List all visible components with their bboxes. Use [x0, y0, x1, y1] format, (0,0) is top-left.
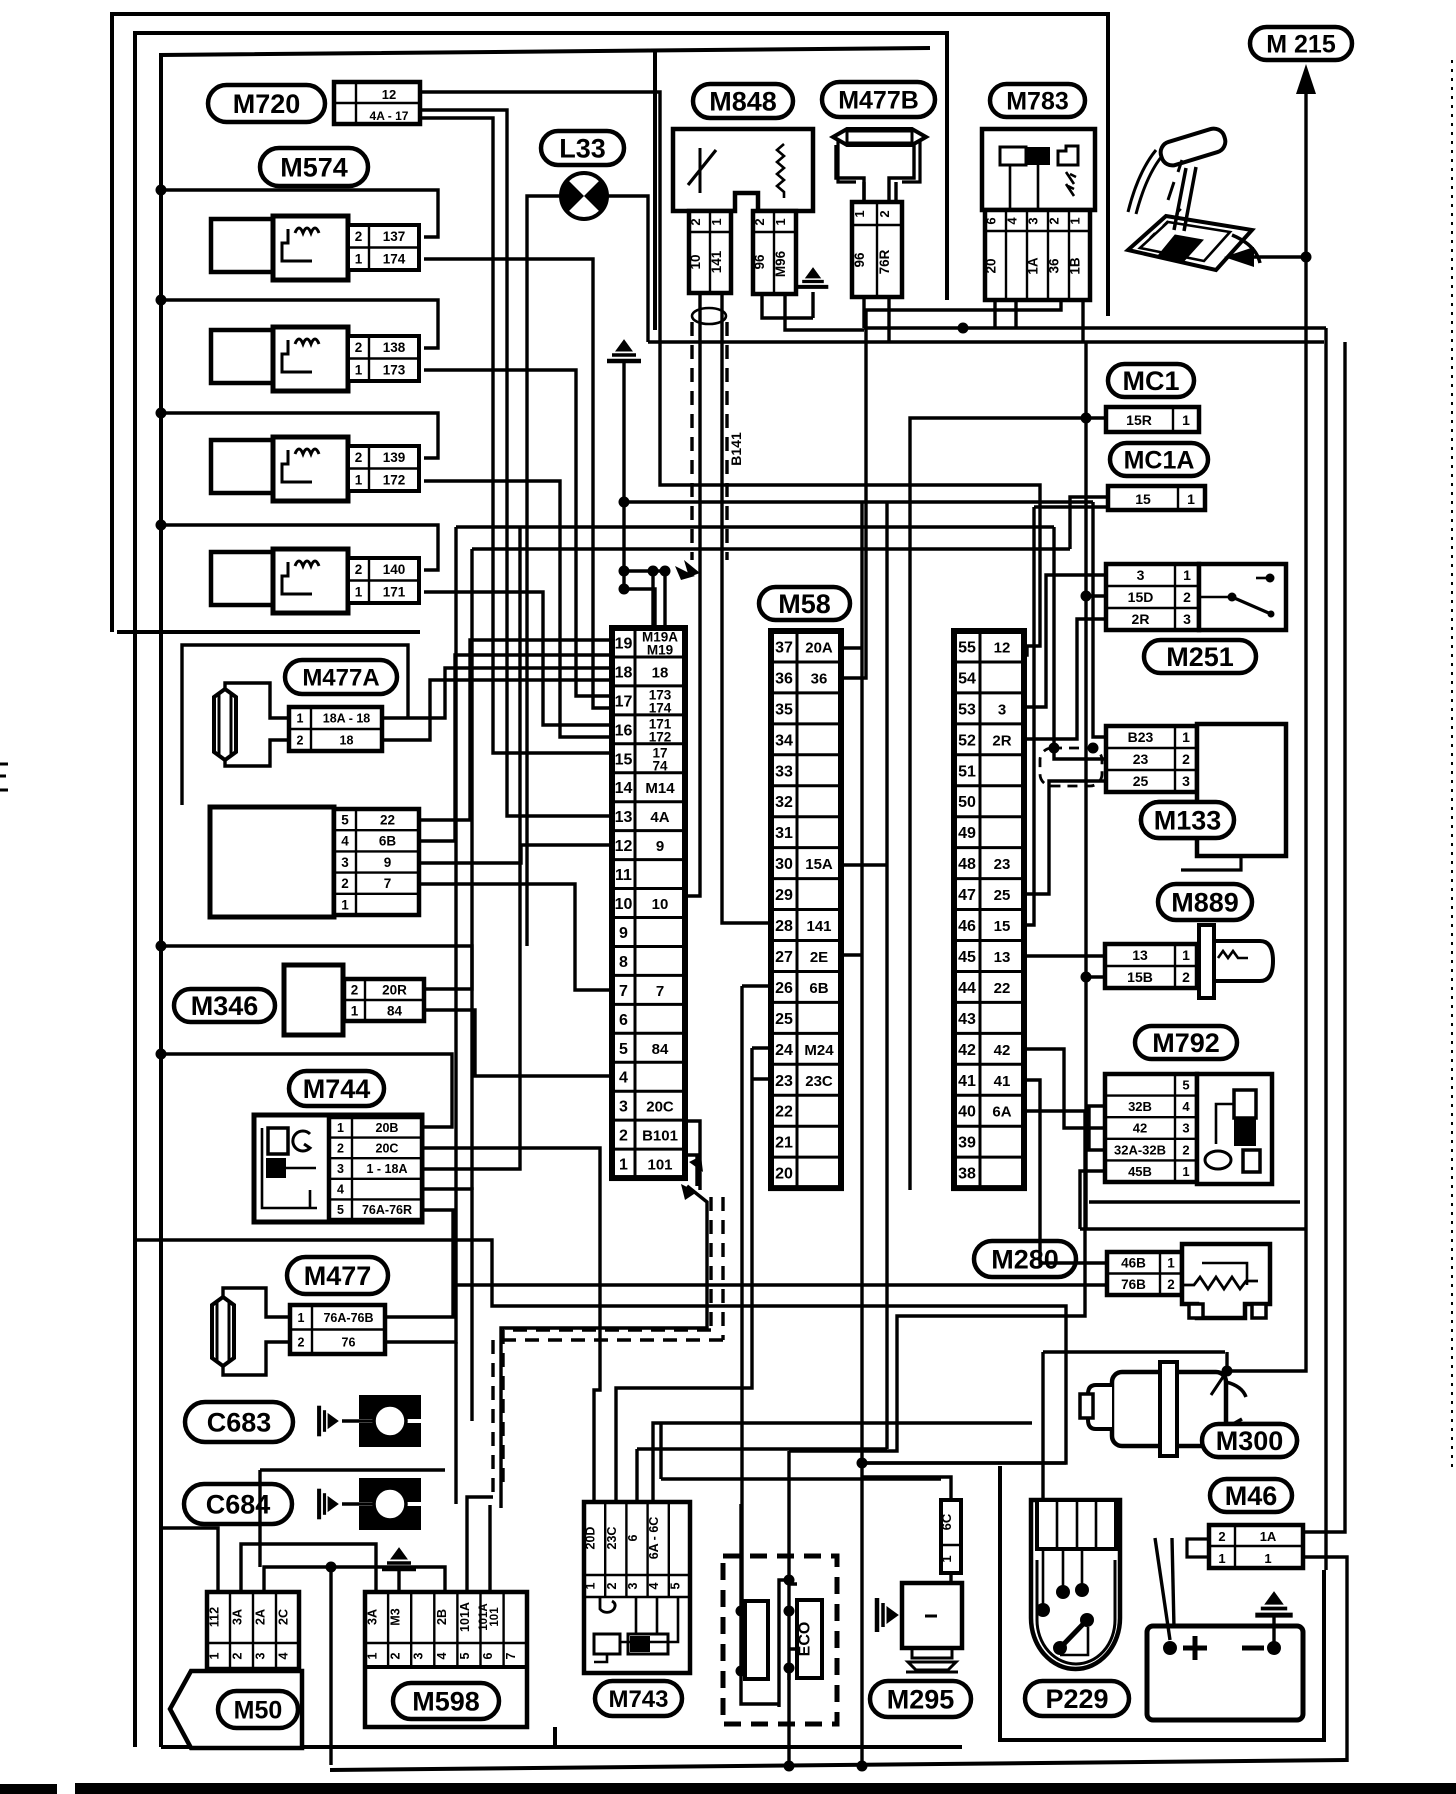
wire — [1080, 1171, 1106, 1229]
connector M58 column A — [612, 628, 685, 1178]
horn M295 — [902, 1583, 962, 1672]
svg-text:1: 1 — [1068, 217, 1083, 224]
svg-text:1: 1 — [584, 1582, 598, 1589]
svg-text:1: 1 — [939, 1555, 954, 1562]
svg-text:12: 12 — [994, 639, 1011, 656]
svg-text:2: 2 — [355, 450, 363, 465]
svg-text:5: 5 — [619, 1041, 628, 1058]
starter motor M300 — [1080, 1362, 1246, 1456]
wire — [1024, 1080, 1107, 1263]
wire — [422, 527, 520, 1169]
ground — [319, 1489, 338, 1520]
svg-text:35: 35 — [775, 701, 793, 718]
label M346 — [174, 989, 275, 1022]
resistor M280 — [1182, 1244, 1270, 1318]
label M783 — [990, 84, 1085, 117]
svg-text:41: 41 — [958, 1073, 976, 1090]
connector M744 pins — [329, 1117, 422, 1220]
svg-text:101A: 101A — [458, 1602, 472, 1632]
svg-text:45B: 45B — [1128, 1164, 1152, 1179]
wire 101 shielded — [501, 1186, 707, 1508]
svg-text:M300: M300 — [1216, 1426, 1284, 1456]
svg-text:3: 3 — [998, 701, 1006, 718]
label M477A — [285, 660, 397, 694]
component M792 — [1197, 1074, 1272, 1184]
svg-text:28: 28 — [775, 918, 793, 935]
svg-text:30: 30 — [775, 856, 793, 873]
svg-text:7: 7 — [384, 876, 392, 891]
frame top group left — [653, 50, 657, 330]
svg-text:6B: 6B — [809, 980, 828, 997]
svg-text:40: 40 — [958, 1104, 976, 1121]
svg-text:6: 6 — [481, 1652, 495, 1659]
wire — [420, 92, 1040, 655]
svg-text:23: 23 — [775, 1073, 793, 1090]
svg-text:M3: M3 — [389, 1608, 403, 1625]
svg-text:1: 1 — [1183, 567, 1191, 583]
wire — [385, 527, 456, 1342]
svg-text:2: 2 — [355, 229, 363, 244]
label C683 — [185, 1402, 293, 1442]
wire — [424, 1010, 612, 1076]
frame M574 group bottom — [117, 630, 420, 634]
svg-text:18: 18 — [340, 734, 354, 748]
svg-text:22: 22 — [380, 812, 395, 827]
wire — [1089, 1106, 1106, 1150]
label M477 — [287, 1257, 388, 1294]
wire — [161, 1054, 452, 1127]
svg-text:25: 25 — [775, 1011, 793, 1028]
wire — [1024, 954, 1105, 957]
wire — [742, 984, 771, 987]
svg-text:2B: 2B — [435, 1609, 449, 1625]
label M50 — [218, 1691, 298, 1728]
svg-text:10: 10 — [688, 254, 703, 269]
wire — [419, 640, 612, 820]
wire — [722, 293, 771, 923]
svg-text:141: 141 — [709, 250, 724, 273]
svg-text:B141: B141 — [728, 432, 744, 466]
wire — [472, 547, 1070, 550]
label ECO — [797, 1600, 822, 1678]
wire fuse M477A — [225, 683, 289, 718]
svg-text:MC1: MC1 — [1122, 366, 1179, 396]
wire — [894, 182, 897, 202]
svg-text:96: 96 — [852, 252, 867, 268]
svg-text:173: 173 — [383, 363, 406, 378]
wire — [424, 259, 612, 708]
junction — [156, 941, 167, 952]
wire — [488, 1505, 491, 1592]
label M300 — [1202, 1424, 1297, 1457]
svg-text:1 - 18A: 1 - 18A — [367, 1162, 408, 1176]
wire — [752, 1046, 771, 1049]
svg-text:4: 4 — [337, 1183, 344, 1197]
svg-text:23: 23 — [1133, 751, 1149, 767]
svg-text:4A: 4A — [650, 809, 669, 826]
connector M46 — [1187, 1525, 1303, 1568]
wire — [1172, 1538, 1174, 1628]
resistor solenoid 140/171 — [211, 549, 348, 613]
svg-text:51: 51 — [958, 763, 976, 780]
svg-text:1: 1 — [355, 473, 363, 488]
svg-text:139: 139 — [383, 450, 406, 465]
wire — [663, 571, 666, 628]
svg-text:M744: M744 — [303, 1074, 371, 1104]
wire — [1024, 507, 1034, 925]
svg-text:43: 43 — [958, 1011, 976, 1028]
wire — [661, 1477, 941, 1480]
svg-text:32B: 32B — [1128, 1099, 1152, 1114]
junction — [619, 584, 630, 595]
svg-text:39: 39 — [958, 1135, 976, 1152]
svg-text:2: 2 — [297, 734, 304, 748]
frame bottom — [161, 1745, 962, 1749]
wire — [860, 502, 863, 1766]
junction — [1081, 972, 1092, 983]
svg-text:16: 16 — [615, 722, 633, 739]
label M295 — [870, 1681, 971, 1717]
wire — [424, 592, 612, 725]
wire — [607, 196, 648, 342]
wire — [161, 525, 438, 570]
junction — [1267, 1641, 1281, 1655]
wire ECO feed — [740, 986, 743, 1671]
label M45 — [1180, 1675, 1260, 1708]
wire — [993, 300, 996, 328]
svg-text:3: 3 — [1182, 773, 1190, 789]
svg-text:6: 6 — [619, 1012, 628, 1029]
svg-text:1: 1 — [355, 585, 363, 600]
svg-text:25: 25 — [1133, 773, 1149, 789]
svg-text:2: 2 — [619, 1128, 628, 1145]
connector MC1 — [1106, 407, 1199, 432]
page bottom bar — [0, 1784, 57, 1794]
junction — [1049, 743, 1060, 754]
battery M45 — [1147, 1626, 1303, 1720]
svg-text:M46: M46 — [1225, 1481, 1278, 1511]
connector M477A pins — [289, 707, 382, 751]
wire — [635, 1449, 638, 1504]
wire — [1086, 594, 1106, 597]
wire — [862, 1461, 1066, 1464]
wire — [762, 295, 813, 318]
svg-text:138: 138 — [383, 340, 406, 355]
svg-text:20D: 20D — [584, 1527, 598, 1550]
svg-text:M24: M24 — [804, 1042, 834, 1059]
wire — [1041, 1352, 1044, 1500]
svg-text:15B: 15B — [1127, 969, 1153, 985]
svg-text:23C: 23C — [605, 1527, 619, 1550]
svg-text:6: 6 — [626, 1534, 640, 1541]
svg-text:5: 5 — [337, 1203, 344, 1217]
svg-text:M720: M720 — [233, 89, 301, 119]
svg-text:24: 24 — [775, 1042, 793, 1059]
svg-text:6B: 6B — [379, 834, 397, 849]
wire fuse M477 — [223, 1288, 290, 1317]
ground — [607, 340, 641, 361]
wire — [422, 1189, 472, 1421]
sensor M346 — [284, 965, 343, 1035]
connector M50 arrow frame — [170, 1671, 302, 1748]
svg-text:15A: 15A — [805, 856, 833, 873]
svg-text:M598: M598 — [412, 1687, 480, 1717]
svg-text:13: 13 — [994, 949, 1011, 966]
svg-text:1A: 1A — [1026, 257, 1041, 275]
svg-text:2: 2 — [752, 218, 767, 225]
svg-text:22: 22 — [775, 1104, 793, 1121]
wire — [342, 1419, 374, 1422]
svg-text:1B: 1B — [1068, 257, 1083, 275]
svg-text:3: 3 — [337, 1162, 344, 1176]
connector M792 pins — [1105, 1074, 1197, 1182]
svg-text:M346: M346 — [191, 991, 259, 1021]
sensor M848 — [673, 129, 813, 211]
svg-text:3: 3 — [254, 1652, 268, 1659]
connector pins 140 171 pins — [348, 558, 419, 603]
connector (dashed) — [1040, 748, 1102, 786]
svg-text:50: 50 — [958, 794, 976, 811]
svg-text:1: 1 — [366, 1652, 380, 1659]
svg-text:34: 34 — [775, 732, 793, 749]
svg-text:10: 10 — [652, 896, 669, 913]
svg-text:1: 1 — [1187, 491, 1195, 507]
wire — [329, 1567, 332, 1765]
wire — [841, 646, 862, 649]
label M58 — [759, 587, 850, 620]
wire — [685, 293, 700, 896]
lamp L33 — [560, 173, 609, 219]
svg-text:3A: 3A — [231, 1609, 245, 1625]
svg-text:76: 76 — [342, 1335, 356, 1349]
svg-text:76A-76R: 76A-76R — [362, 1203, 412, 1217]
svg-text:76R: 76R — [877, 249, 892, 274]
connector M133 pins — [1106, 726, 1197, 792]
connector M313 pins — [334, 809, 419, 915]
svg-text:1: 1 — [852, 210, 867, 217]
svg-text:3A: 3A — [366, 1609, 380, 1625]
label M477B — [822, 82, 935, 117]
svg-text:5: 5 — [668, 1582, 682, 1589]
svg-text:M58: M58 — [778, 589, 831, 619]
svg-text:2: 2 — [1167, 1277, 1175, 1292]
svg-text:172: 172 — [383, 473, 406, 488]
svg-text:174: 174 — [383, 252, 406, 267]
ground — [811, 292, 814, 318]
wire battery minus to ground — [1272, 1614, 1275, 1648]
svg-text:49: 49 — [958, 825, 976, 842]
connector M280 pins — [1107, 1252, 1182, 1295]
junction — [1301, 252, 1312, 263]
svg-text:M14: M14 — [645, 780, 675, 797]
svg-text:3: 3 — [412, 1652, 426, 1659]
svg-text:1: 1 — [355, 252, 363, 267]
junction — [857, 1761, 868, 1772]
svg-text:1: 1 — [619, 1157, 628, 1174]
junction — [857, 1458, 868, 1469]
shielded cable B141 — [690, 322, 693, 560]
svg-text:23C: 23C — [805, 1073, 833, 1090]
svg-text:3: 3 — [619, 1099, 628, 1116]
svg-text:14: 14 — [615, 780, 633, 797]
label M598 — [393, 1683, 499, 1719]
connector M346 pins — [344, 979, 424, 1021]
junction — [648, 566, 659, 577]
resistor solenoid 139/172 — [211, 437, 348, 501]
svg-text:31: 31 — [775, 825, 793, 842]
svg-text:4: 4 — [619, 1070, 628, 1087]
svg-text:29: 29 — [775, 887, 793, 904]
connector body — [359, 1395, 421, 1447]
svg-text:1: 1 — [1182, 947, 1190, 963]
wire — [785, 295, 864, 330]
wire — [651, 571, 654, 628]
wire — [161, 1528, 218, 1592]
junction — [156, 185, 167, 196]
svg-text:5: 5 — [1182, 1077, 1189, 1092]
wire — [161, 190, 438, 237]
svg-text:6A: 6A — [992, 1104, 1011, 1121]
svg-text:MC1A: MC1A — [1124, 447, 1195, 475]
svg-text:2: 2 — [389, 1652, 403, 1659]
svg-text:1: 1 — [1182, 729, 1190, 745]
svg-text:4: 4 — [277, 1652, 291, 1659]
svg-text:21: 21 — [775, 1135, 793, 1152]
svg-text:3: 3 — [1137, 567, 1145, 583]
svg-text:12: 12 — [615, 838, 633, 855]
svg-text:141: 141 — [806, 918, 831, 935]
svg-text:15D: 15D — [1128, 589, 1154, 605]
wire — [1084, 342, 1087, 1228]
wire — [1024, 781, 1106, 894]
svg-text:20B: 20B — [376, 1121, 399, 1135]
svg-text:2E: 2E — [810, 949, 828, 966]
svg-text:C683: C683 — [207, 1408, 272, 1438]
wire — [1024, 1049, 1105, 1128]
svg-text:6C: 6C — [939, 1513, 954, 1530]
wire — [1024, 575, 1106, 707]
label MC1 — [1108, 364, 1194, 397]
svg-text:9: 9 — [656, 838, 664, 855]
svg-text:1: 1 — [208, 1652, 222, 1659]
label M50 — [218, 1691, 298, 1728]
wire 6C to M295 — [949, 1573, 952, 1583]
junction — [1163, 1641, 1177, 1655]
frame outer — [112, 14, 1108, 632]
svg-text:22: 22 — [994, 980, 1011, 997]
svg-text:M251: M251 — [1166, 642, 1234, 672]
svg-text:12: 12 — [382, 87, 396, 102]
svg-text:101: 101 — [489, 1607, 501, 1627]
wire — [887, 297, 890, 342]
wire — [1155, 1538, 1170, 1640]
wire — [382, 680, 612, 740]
junction — [784, 1663, 795, 1674]
svg-text:M 215: M 215 — [1266, 31, 1336, 59]
fuse 6C — [941, 1500, 961, 1573]
frame M792 group — [1089, 1200, 1300, 1203]
wire — [419, 845, 612, 863]
svg-text:23: 23 — [994, 856, 1011, 873]
svg-text:15: 15 — [994, 918, 1011, 935]
page left edge marks — [0, 764, 8, 790]
resistor solenoid 137/174 — [211, 216, 348, 280]
svg-text:4: 4 — [647, 1582, 661, 1589]
wire — [787, 1451, 790, 1504]
wire — [624, 569, 668, 572]
frame second — [135, 33, 947, 1747]
svg-text:13: 13 — [1132, 947, 1148, 963]
svg-text:6: 6 — [984, 217, 999, 224]
wire — [864, 326, 1326, 329]
frame M598 group stub — [553, 1727, 557, 1747]
wire — [467, 1497, 493, 1592]
svg-text:20: 20 — [984, 258, 999, 273]
svg-text:17: 17 — [615, 693, 633, 710]
connector pins 137 174 pins — [348, 225, 419, 270]
svg-text:54: 54 — [958, 670, 976, 687]
connector M477B pins — [852, 202, 902, 297]
wire — [752, 1077, 771, 1080]
illustration gear lever — [1128, 126, 1260, 270]
svg-text:32A-32B: 32A-32B — [1114, 1142, 1166, 1157]
svg-text:2: 2 — [688, 218, 703, 225]
svg-text:M477A: M477A — [302, 665, 379, 692]
fuse M477B — [833, 129, 926, 182]
svg-text:9: 9 — [384, 855, 392, 870]
label M280 — [974, 1241, 1076, 1277]
svg-text:55: 55 — [958, 639, 976, 656]
svg-text:6A - 6C: 6A - 6C — [647, 1517, 661, 1560]
svg-text:1: 1 — [1264, 1551, 1271, 1566]
svg-text:25: 25 — [994, 887, 1011, 904]
svg-text:26: 26 — [775, 980, 793, 997]
svg-text:4: 4 — [435, 1652, 449, 1659]
svg-text:3: 3 — [626, 1582, 640, 1589]
svg-text:42: 42 — [1133, 1121, 1147, 1136]
connector M58 column C — [954, 631, 1024, 1188]
wire — [624, 589, 655, 628]
ground — [798, 268, 829, 287]
bulb M889 — [1199, 925, 1273, 998]
wire — [453, 1283, 1107, 1286]
svg-text:4A - 17: 4A - 17 — [370, 109, 409, 123]
fuse M477A — [214, 689, 236, 760]
svg-text:46: 46 — [958, 918, 976, 935]
svg-text:36: 36 — [775, 670, 793, 687]
svg-text:2A: 2A — [254, 1609, 268, 1625]
wire — [161, 946, 472, 989]
label M598 — [393, 1683, 499, 1719]
svg-text:4: 4 — [341, 834, 349, 849]
svg-text:P229: P229 — [1045, 1684, 1108, 1714]
svg-text:84: 84 — [652, 1041, 669, 1058]
wire — [342, 1502, 374, 1505]
ground — [622, 362, 625, 589]
label C684 — [184, 1484, 292, 1524]
svg-text:52: 52 — [958, 732, 976, 749]
svg-text:1: 1 — [297, 712, 304, 726]
wire — [264, 1567, 445, 1592]
svg-text:20C: 20C — [646, 1099, 674, 1116]
svg-text:2R: 2R — [1132, 611, 1150, 627]
svg-text:76A-76B: 76A-76B — [323, 1311, 373, 1325]
svg-text:53: 53 — [958, 701, 976, 718]
junction — [1222, 1366, 1233, 1377]
wire — [1225, 1352, 1228, 1371]
svg-text:140: 140 — [383, 562, 406, 577]
junction — [1081, 413, 1092, 424]
